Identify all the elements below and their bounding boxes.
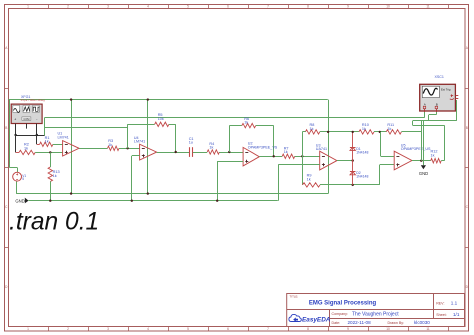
svg-text:OPAMP3PEE_VS: OPAMP3PEE_VS: [248, 145, 278, 149]
resistor R4: [207, 150, 219, 154]
wire U4 output: [157, 152, 190, 154]
svg-text:7: 7: [267, 327, 269, 331]
svg-text:6: 6: [227, 327, 229, 331]
svg-text:GND: GND: [419, 171, 428, 176]
junction U3 minus node: [301, 155, 303, 157]
resistor R2: [19, 150, 35, 154]
svg-text:8: 8: [307, 5, 309, 9]
junction U4 minus node: [126, 147, 128, 149]
wire scope trig down: [456, 100, 458, 121]
svg-text:8: 8: [307, 327, 309, 331]
wire R8 left lead: [302, 131, 305, 133]
svg-text:1: 1: [27, 5, 29, 9]
wire U5 minus down: [380, 132, 382, 156]
wire V1 bottom lead: [16, 181, 18, 193]
XFG1 pin COM: [26, 124, 28, 129]
svg-text:1u: 1u: [189, 141, 193, 145]
wire U2 feedback top left: [229, 125, 242, 127]
junction R13 GND rail: [49, 200, 51, 202]
svg-text:1N4148: 1N4148: [356, 175, 368, 179]
svg-text:5: 5: [187, 5, 189, 9]
wire scope bus y125: [413, 125, 445, 127]
svg-text:1k: 1k: [244, 121, 248, 125]
EasyEDA logo: [289, 314, 331, 323]
svg-text:TITLE:: TITLE:: [290, 294, 299, 298]
wire scope A down: [424, 112, 426, 118]
op-amp U5: [394, 143, 431, 170]
svg-text:1k: 1k: [310, 127, 314, 131]
junction U4 output feedback: [175, 151, 177, 153]
svg-text:1k: 1k: [362, 127, 366, 131]
junction D1 top node: [352, 131, 354, 133]
oscilloscope XSC1 body: [420, 84, 459, 112]
wire fngen loop horizontal: [44, 127, 127, 129]
wire V+ rail drop at frame edge: [9, 100, 11, 168]
svg-text:XSC1: XSC1: [435, 75, 444, 79]
op-amp U3: [316, 143, 337, 170]
wire diode column: [352, 132, 354, 185]
wire U5 output: [412, 160, 431, 162]
diode D1: [350, 147, 356, 150]
wire U4 plus down: [131, 156, 133, 201]
C1 label: [189, 137, 194, 145]
svg-text:The Vaughen Project: The Vaughen Project: [352, 311, 399, 317]
capacitor C1: [190, 147, 193, 157]
svg-text:2022-11-08: 2022-11-08: [348, 320, 372, 325]
wire U3 plus down: [278, 165, 280, 201]
svg-text:C: C: [5, 205, 8, 209]
function generator XFG1 body: [11, 104, 42, 123]
R8 label: [310, 123, 315, 131]
wire GND rail: [29, 200, 278, 202]
junction R2 node to R13: [49, 151, 51, 153]
wire R9 to D2 node: [320, 184, 380, 186]
wire U1 power vertical: [71, 100, 73, 194]
resistor R9: [303, 183, 321, 187]
wire U5 plus stub: [380, 164, 395, 166]
R11 label: [387, 123, 394, 131]
wire U2 output: [259, 156, 282, 158]
wire scope B jog down: [428, 115, 430, 121]
svg-text:1k: 1k: [387, 127, 391, 131]
svg-text:10k: 10k: [158, 117, 164, 121]
svg-text:OPAMP3PEE_US: OPAMP3PEE_US: [401, 147, 431, 151]
svg-text:Date:: Date:: [332, 321, 341, 325]
junction U4 plus GND rail: [131, 200, 133, 202]
wire mid rail y118: [44, 117, 424, 119]
svg-text:.tran 0.1: .tran 0.1: [9, 209, 99, 236]
svg-text:6: 6: [227, 5, 229, 9]
svg-text:3: 3: [107, 327, 109, 331]
svg-text:Sheet:: Sheet:: [436, 313, 446, 317]
wire U5 plus vertical: [379, 165, 381, 185]
svg-text:5: 5: [187, 327, 189, 331]
resistor R3: [108, 146, 120, 150]
wire U3 power vertical: [328, 100, 330, 194]
wire R13 bottom lead: [50, 182, 52, 201]
resistor R6: [242, 123, 256, 127]
wire scope bus y121: [413, 120, 457, 122]
svg-text:2: 2: [67, 327, 69, 331]
wire R1 to U1 minus: [53, 144, 63, 146]
svg-text:3: 3: [107, 5, 109, 9]
R13 label: [53, 170, 60, 178]
wire fngen loop vertical: [44, 118, 46, 136]
wire bottom rail1: [16, 193, 328, 195]
svg-text:Ext Trig: Ext Trig: [441, 87, 451, 91]
R1 label: [45, 136, 50, 144]
R10 label: [362, 123, 369, 131]
R2 label: [24, 143, 29, 151]
wire U4 feedback up: [127, 124, 129, 148]
wire R3 to U4 minus: [119, 148, 140, 150]
frame row ticks and letters: [4, 46, 469, 289]
wire R8 to power cross: [320, 131, 359, 133]
svg-text:1k: 1k: [431, 154, 435, 158]
wire R7 to U3 minus: [295, 156, 320, 158]
title block grid: [287, 294, 465, 327]
wire U2 plus stub: [217, 161, 243, 163]
op-amp U1: [58, 132, 80, 156]
svg-text:9: 9: [347, 327, 349, 331]
wire U5 minus stub: [381, 156, 395, 158]
wire R10 to R11: [374, 131, 386, 133]
XFG1 pin -: [36, 124, 38, 136]
resistor R11: [386, 130, 401, 134]
svg-text:1k: 1k: [53, 174, 57, 178]
svg-text:11: 11: [426, 327, 430, 331]
wire R13 top lead: [50, 152, 52, 167]
junction U2 minus node: [228, 151, 230, 153]
wire R2 left lead: [16, 152, 20, 154]
wire R4 to U2 minus: [219, 152, 243, 154]
wire U2 feedback up: [229, 126, 231, 152]
ground net flag GND: [15, 198, 28, 204]
title block Date row: [332, 320, 431, 325]
wire R1 left lead: [37, 144, 40, 146]
op-amp U4: [134, 136, 157, 160]
resistor R13 vertical: [48, 167, 52, 182]
wire U3 plus: [278, 164, 320, 166]
wire scope B down: [436, 112, 438, 115]
wire U2 feedback down: [273, 126, 275, 157]
junction U2 plus GND rail: [216, 200, 218, 202]
junction U4 power rail1: [147, 192, 149, 194]
junction U5 output node: [420, 160, 422, 162]
wire U3 fb/R9 vertical: [302, 132, 304, 185]
svg-text:10: 10: [386, 5, 390, 9]
XFG1 pin +: [15, 124, 17, 136]
svg-text:5Vpk 700Hz 0Deg: 5Vpk 700Hz 0Deg: [21, 98, 46, 102]
wire R12 right lead: [441, 160, 444, 162]
D1 label: [356, 147, 368, 155]
resistor R8: [305, 130, 319, 134]
D2 label: [356, 171, 368, 179]
op-amp U2: [243, 142, 278, 166]
svg-text:REV:: REV:: [436, 301, 444, 305]
wire R11 to U5 feedback: [401, 131, 421, 133]
svg-text:EMG Signal Processing: EMG Signal Processing: [309, 300, 377, 306]
svg-text:9: 9: [347, 5, 349, 9]
svg-text:A: A: [5, 46, 8, 50]
svg-text:Company:: Company:: [332, 312, 348, 316]
svg-text:LM741: LM741: [134, 140, 145, 144]
svg-text:4: 4: [147, 327, 149, 331]
wire C1 to R4: [193, 152, 207, 154]
wire XFG1 plus-minus bottom: [16, 135, 45, 137]
junction U1 power top rail: [70, 98, 72, 100]
svg-text:1k: 1k: [209, 146, 213, 150]
svg-text:5: 5: [22, 177, 24, 181]
svg-text:Drawn By:: Drawn By:: [388, 321, 405, 325]
junction U4 power top rail: [147, 98, 149, 100]
R5 label: [158, 113, 164, 121]
wire V+ top rail: [9, 99, 328, 101]
svg-text:1k: 1k: [45, 140, 49, 144]
resistor R7: [282, 154, 295, 158]
svg-text:COM: COM: [23, 117, 29, 121]
svg-text:2: 2: [67, 5, 69, 9]
svg-text:GND: GND: [15, 198, 24, 203]
svg-text:4: 4: [147, 5, 149, 9]
wire U3 output: [337, 160, 353, 162]
junction D2 bottom node: [352, 184, 354, 186]
wire U2 plus down: [217, 161, 219, 200]
V1 label: [22, 174, 26, 181]
wire U4 feedback top left: [128, 124, 155, 126]
svg-text:UA741: UA741: [316, 147, 327, 151]
function generator XFG1 value label: [21, 98, 46, 102]
svg-text:-: -: [36, 118, 37, 122]
resistor R1: [40, 142, 53, 146]
svg-text:B: B: [466, 126, 468, 130]
svg-text:1N4148: 1N4148: [356, 150, 368, 154]
junction U1 power bottom rail1: [70, 192, 72, 194]
wire minus node down to R1: [36, 135, 38, 144]
ground flag right: [419, 121, 428, 176]
wire V1 top lead: [17, 168, 19, 173]
junction U2 output feedback: [273, 155, 275, 157]
svg-text:klc0030: klc0030: [414, 320, 430, 325]
wire R12 up to scope: [444, 125, 446, 161]
junction XFG1 plus: [14, 134, 16, 136]
resistor R12: [431, 159, 442, 163]
svg-text:EasyEDA: EasyEDA: [302, 316, 331, 323]
wire scope B jog: [429, 114, 436, 116]
title block Sheet: [436, 312, 460, 317]
wire plus node down to R2: [15, 135, 17, 152]
wire U4 feedback top right: [169, 124, 176, 126]
svg-text:1k: 1k: [24, 146, 28, 150]
wire U1 output: [79, 148, 108, 150]
wire U2 feedback top right: [256, 125, 274, 127]
wire U4 plus stub: [132, 155, 140, 157]
junction U5 minus tap: [379, 131, 381, 133]
svg-text:+: +: [14, 118, 16, 122]
svg-text:1k: 1k: [108, 143, 112, 147]
wire U4 power vertical: [147, 100, 149, 194]
R7 label: [284, 146, 289, 154]
resistor R10: [359, 130, 374, 134]
svg-text:B: B: [5, 126, 7, 130]
wire U4 feedback down: [175, 124, 177, 152]
svg-text:10: 10: [386, 327, 390, 331]
svg-text:D: D: [5, 285, 8, 289]
junction U3 output diode node: [352, 159, 354, 161]
svg-text:LM741: LM741: [58, 135, 69, 139]
junction XFG1 minus: [36, 134, 38, 136]
function generator XFG1 label: [21, 95, 30, 99]
resistor R5: [155, 122, 169, 126]
title block Company: [332, 311, 400, 317]
svg-text:1k: 1k: [307, 177, 311, 181]
svg-text:1k: 1k: [284, 150, 288, 154]
diode D2: [350, 172, 356, 175]
wire V1 plus to frame edge: [9, 167, 17, 169]
R3 label: [108, 139, 113, 147]
R12 label: [431, 150, 438, 158]
svg-text:7: 7: [267, 5, 269, 9]
junction R8 power cross: [327, 131, 329, 133]
svg-text:1: 1: [27, 327, 29, 331]
R6 label: [244, 117, 249, 125]
voltage source V1: [13, 172, 22, 181]
svg-text:11: 11: [426, 5, 430, 9]
svg-text:1.1: 1.1: [451, 301, 458, 306]
svg-text:1/1: 1/1: [453, 312, 460, 317]
title block REV: [436, 301, 457, 306]
R9 label: [307, 174, 312, 182]
wire scope left drop: [412, 121, 414, 125]
wire U5 feedback vertical: [421, 121, 423, 161]
R4 label: [209, 142, 214, 150]
wire R2 to U1 plus: [35, 152, 62, 154]
